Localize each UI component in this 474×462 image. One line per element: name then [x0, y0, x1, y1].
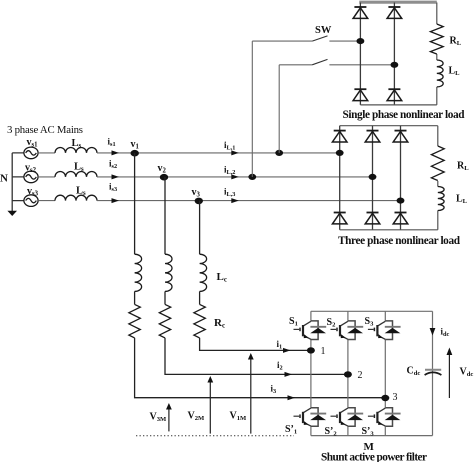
- arrow is3: [112, 198, 120, 203]
- AC source Vs3: [24, 195, 38, 207]
- branch 3 wire top: [199, 201, 201, 255]
- arrow is2: [112, 174, 120, 179]
- arrow i3: [288, 395, 296, 400]
- diode D7: [393, 131, 408, 142]
- inductor Lc2: [165, 254, 172, 291]
- diode D6: [365, 131, 380, 142]
- wire row3 source segment: [38, 200, 55, 202]
- resistor Rc1: [129, 304, 140, 338]
- arrow idc: [430, 328, 436, 336]
- riser wire phase1 to switch2: [278, 65, 280, 153]
- inductor Lc3: [200, 254, 207, 291]
- diode D10: [393, 213, 408, 224]
- node leg3 mid: [397, 198, 405, 204]
- arrow iL2: [231, 174, 239, 179]
- resistor Rc2: [159, 304, 170, 338]
- filter leg 2: [347, 311, 349, 435]
- arrow V1M: [250, 356, 252, 434]
- node 1: [307, 347, 315, 353]
- bridge leg B: [393, 3, 395, 105]
- arrow iL1: [231, 150, 239, 155]
- resistor RL1: [430, 24, 443, 54]
- IGBT S'1: [294, 408, 327, 427]
- bridge leg 2: [372, 126, 374, 230]
- filter leg 1: [310, 311, 312, 435]
- svg-text:SW: SW: [315, 25, 332, 36]
- inductor Lc1: [135, 254, 142, 291]
- inductor Ls row1: [55, 148, 97, 153]
- wire row3: [97, 200, 401, 202]
- top bus: [340, 125, 438, 127]
- filter leg 3: [384, 311, 386, 435]
- arrow Vdc: [448, 353, 450, 398]
- AC source Vs1: [24, 147, 38, 159]
- switch SW upper wire: [252, 40, 360, 42]
- arrow is1: [112, 150, 120, 155]
- svg-text:3 phase AC Mains: 3 phase AC Mains: [7, 124, 83, 136]
- dashed reference line: [136, 435, 294, 437]
- wire row1: [97, 152, 340, 154]
- dc rail: [432, 311, 434, 435]
- IGBT S'3: [368, 408, 401, 427]
- bridge leg 1: [339, 126, 341, 230]
- diode D1: [353, 7, 368, 18]
- svg-text:N: N: [0, 173, 8, 185]
- branch 3 wire bottom + row i1: [200, 338, 311, 351]
- arrow V3M: [168, 406, 170, 431]
- arrow iL3: [231, 198, 239, 203]
- IGBT S2: [331, 321, 364, 340]
- switch SW lower wire: [279, 64, 394, 66]
- load branch wire: [437, 126, 439, 230]
- bottom bus: [340, 229, 438, 231]
- capacitor Cdc bottom plate: [425, 372, 442, 375]
- switch SW lower blade: [312, 59, 327, 64]
- junction node row2: [248, 174, 256, 180]
- svg-text:2: 2: [358, 370, 363, 381]
- top bus (thick): [359, 1, 437, 4]
- svg-text:Three phase nonlinear load: Three phase nonlinear load: [338, 235, 461, 247]
- svg-text:3: 3: [393, 392, 398, 403]
- IGBT S3: [368, 321, 401, 340]
- svg-text:Single phase nonlinear load: Single phase nonlinear load: [343, 109, 466, 121]
- filter top bus: [311, 310, 433, 312]
- riser wire phase2 to switch1: [251, 41, 253, 177]
- branch 2 wire top: [164, 177, 166, 254]
- inductor Ls row3: [55, 195, 97, 200]
- capacitor Cdc top plate: [425, 369, 441, 371]
- ground arrow: [7, 211, 17, 216]
- resistor RL2: [431, 146, 444, 181]
- branch 1 wire mid: [134, 291, 136, 304]
- bridge leg 3: [400, 126, 402, 230]
- diode D5: [332, 131, 347, 142]
- AC source Vs2: [24, 171, 38, 183]
- diode D2: [387, 7, 402, 18]
- wire row2: [97, 176, 373, 178]
- node leg2 mid: [369, 174, 377, 180]
- wire row1 source segment: [38, 152, 55, 154]
- bridge leg A: [359, 3, 361, 105]
- IGBT S1: [294, 321, 327, 340]
- inductor LL1: [437, 60, 443, 87]
- node 3: [381, 395, 389, 401]
- inductor Ls row2: [55, 172, 97, 177]
- branch 2 wire mid: [164, 291, 166, 304]
- branch 1 wire top: [134, 153, 136, 254]
- node v3: [195, 198, 203, 205]
- diode D9: [365, 213, 380, 224]
- node leg A mid: [357, 38, 365, 44]
- diode D3: [353, 89, 368, 100]
- node 2: [344, 371, 352, 377]
- diode D4: [387, 89, 402, 100]
- wire row2 source segment: [38, 176, 55, 178]
- branch 2 wire bottom + row i2: [165, 338, 348, 375]
- inductor LL2: [438, 187, 444, 211]
- switch SW upper blade: [312, 36, 327, 41]
- branch 3 wire mid: [199, 291, 201, 304]
- diode D8: [332, 213, 347, 224]
- branch 1 wire bottom + row i3: [135, 338, 386, 398]
- filter bottom bus: [311, 435, 433, 437]
- node leg B mid: [391, 62, 399, 68]
- node v1: [131, 150, 139, 157]
- arrow i1: [283, 348, 291, 353]
- svg-text:1: 1: [321, 346, 326, 357]
- arrow i2: [285, 372, 293, 377]
- node v2: [160, 174, 168, 181]
- load branch wire: [436, 3, 438, 105]
- junction node row1: [275, 150, 283, 156]
- bottom bus: [360, 104, 436, 106]
- arrow V2M: [209, 379, 211, 434]
- node leg1 mid: [336, 150, 344, 156]
- svg-text:Shunt active power filter: Shunt active power filter: [321, 452, 427, 462]
- IGBT S'2: [331, 408, 364, 427]
- neutral bus wire: [12, 153, 24, 212]
- resistor Rc3: [194, 304, 205, 338]
